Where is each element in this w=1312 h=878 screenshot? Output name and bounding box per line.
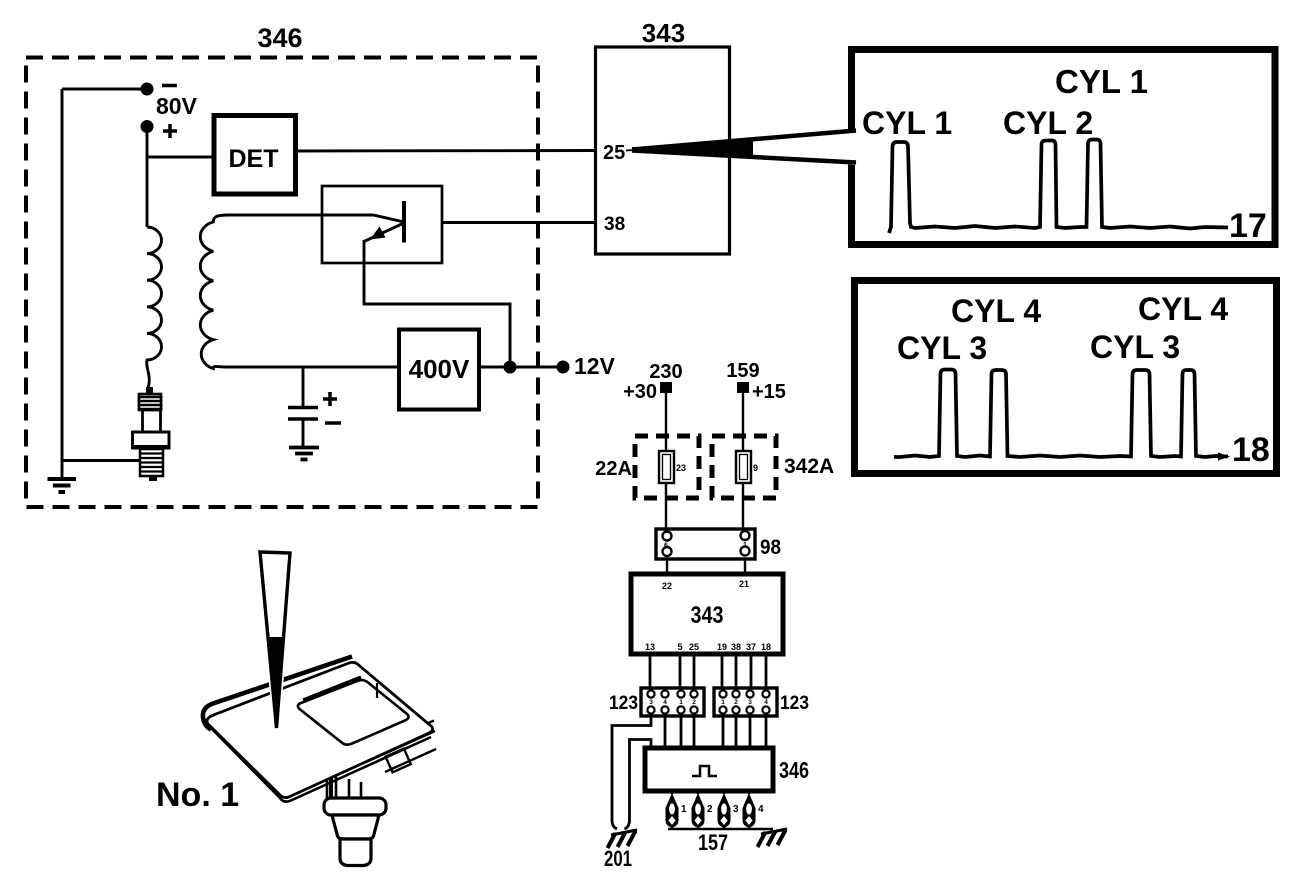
svg-text:2: 2: [734, 699, 738, 706]
svg-text:CYL 4: CYL 4: [1138, 291, 1228, 327]
svg-text:+15: +15: [752, 381, 786, 403]
svg-text:19: 19: [717, 642, 727, 652]
svg-text:CYL 1: CYL 1: [1055, 63, 1148, 100]
svg-text:4: 4: [764, 699, 768, 706]
svg-text:400V: 400V: [409, 354, 470, 384]
svg-text:159: 159: [726, 360, 759, 382]
svg-text:98: 98: [760, 536, 781, 559]
svg-text:4: 4: [663, 699, 667, 706]
svg-text:343: 343: [642, 18, 685, 48]
svg-text:1: 1: [681, 804, 687, 815]
svg-text:201: 201: [604, 846, 632, 871]
svg-text:2: 2: [692, 699, 696, 706]
svg-text:80V: 80V: [156, 93, 198, 119]
svg-text:CYL 4: CYL 4: [951, 293, 1041, 329]
svg-text:21: 21: [739, 579, 749, 589]
svg-text:No. 1: No. 1: [156, 776, 239, 814]
svg-text:1: 1: [679, 699, 683, 706]
svg-text:123: 123: [780, 693, 809, 714]
svg-text:3: 3: [649, 699, 653, 706]
svg-text:18: 18: [1232, 431, 1270, 469]
svg-text:22A: 22A: [595, 458, 632, 480]
svg-text:346: 346: [779, 757, 809, 783]
svg-text:3: 3: [733, 804, 739, 815]
svg-text:25: 25: [689, 642, 699, 652]
svg-text:CYL 1: CYL 1: [862, 105, 952, 141]
svg-text:6: 6: [664, 543, 668, 550]
svg-text:343: 343: [691, 602, 724, 629]
svg-text:17: 17: [1229, 207, 1267, 245]
svg-text:CYL 3: CYL 3: [1090, 329, 1180, 365]
svg-text:12V: 12V: [574, 353, 616, 379]
svg-text:38: 38: [731, 642, 741, 652]
svg-text:18: 18: [761, 642, 771, 652]
svg-text:25: 25: [603, 142, 625, 164]
svg-text:+30: +30: [623, 381, 657, 403]
svg-text:13: 13: [645, 642, 655, 652]
svg-text:3: 3: [748, 699, 752, 706]
svg-text:342A: 342A: [784, 455, 834, 478]
svg-text:9: 9: [753, 463, 758, 473]
svg-text:346: 346: [257, 23, 302, 53]
svg-text:38: 38: [604, 214, 625, 235]
svg-text:1: 1: [743, 542, 747, 549]
svg-text:23: 23: [676, 463, 686, 473]
svg-text:2: 2: [707, 804, 713, 815]
svg-text:37: 37: [746, 642, 756, 652]
svg-text:1: 1: [721, 699, 725, 706]
svg-text:123: 123: [609, 693, 638, 714]
svg-text:230: 230: [649, 361, 682, 383]
svg-text:CYL 2: CYL 2: [1003, 105, 1093, 141]
svg-text:4: 4: [758, 804, 764, 815]
svg-text:157: 157: [698, 830, 728, 855]
svg-text:5: 5: [677, 642, 682, 652]
svg-text:22: 22: [662, 581, 672, 591]
svg-text:DET: DET: [229, 145, 279, 173]
svg-text:CYL 3: CYL 3: [897, 330, 987, 366]
